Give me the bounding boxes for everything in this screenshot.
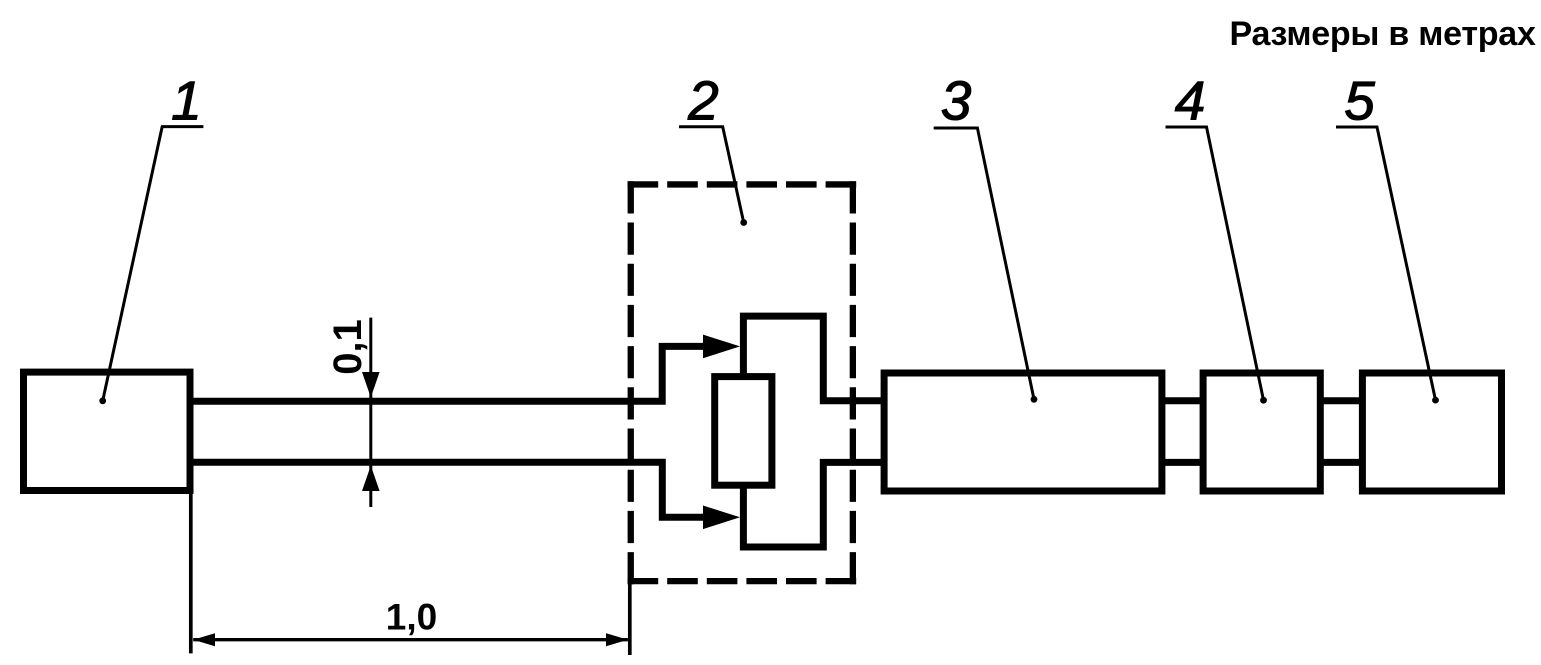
svg-text:0,1: 0,1: [326, 319, 370, 375]
svg-text:3: 3: [941, 70, 972, 132]
svg-text:4: 4: [1175, 70, 1206, 132]
svg-text:2: 2: [687, 70, 719, 132]
svg-text:5: 5: [1344, 70, 1375, 132]
svg-text:1: 1: [171, 70, 202, 132]
svg-text:Размеры в метрах: Размеры в метрах: [1230, 15, 1536, 53]
svg-text:1,0: 1,0: [386, 597, 437, 638]
